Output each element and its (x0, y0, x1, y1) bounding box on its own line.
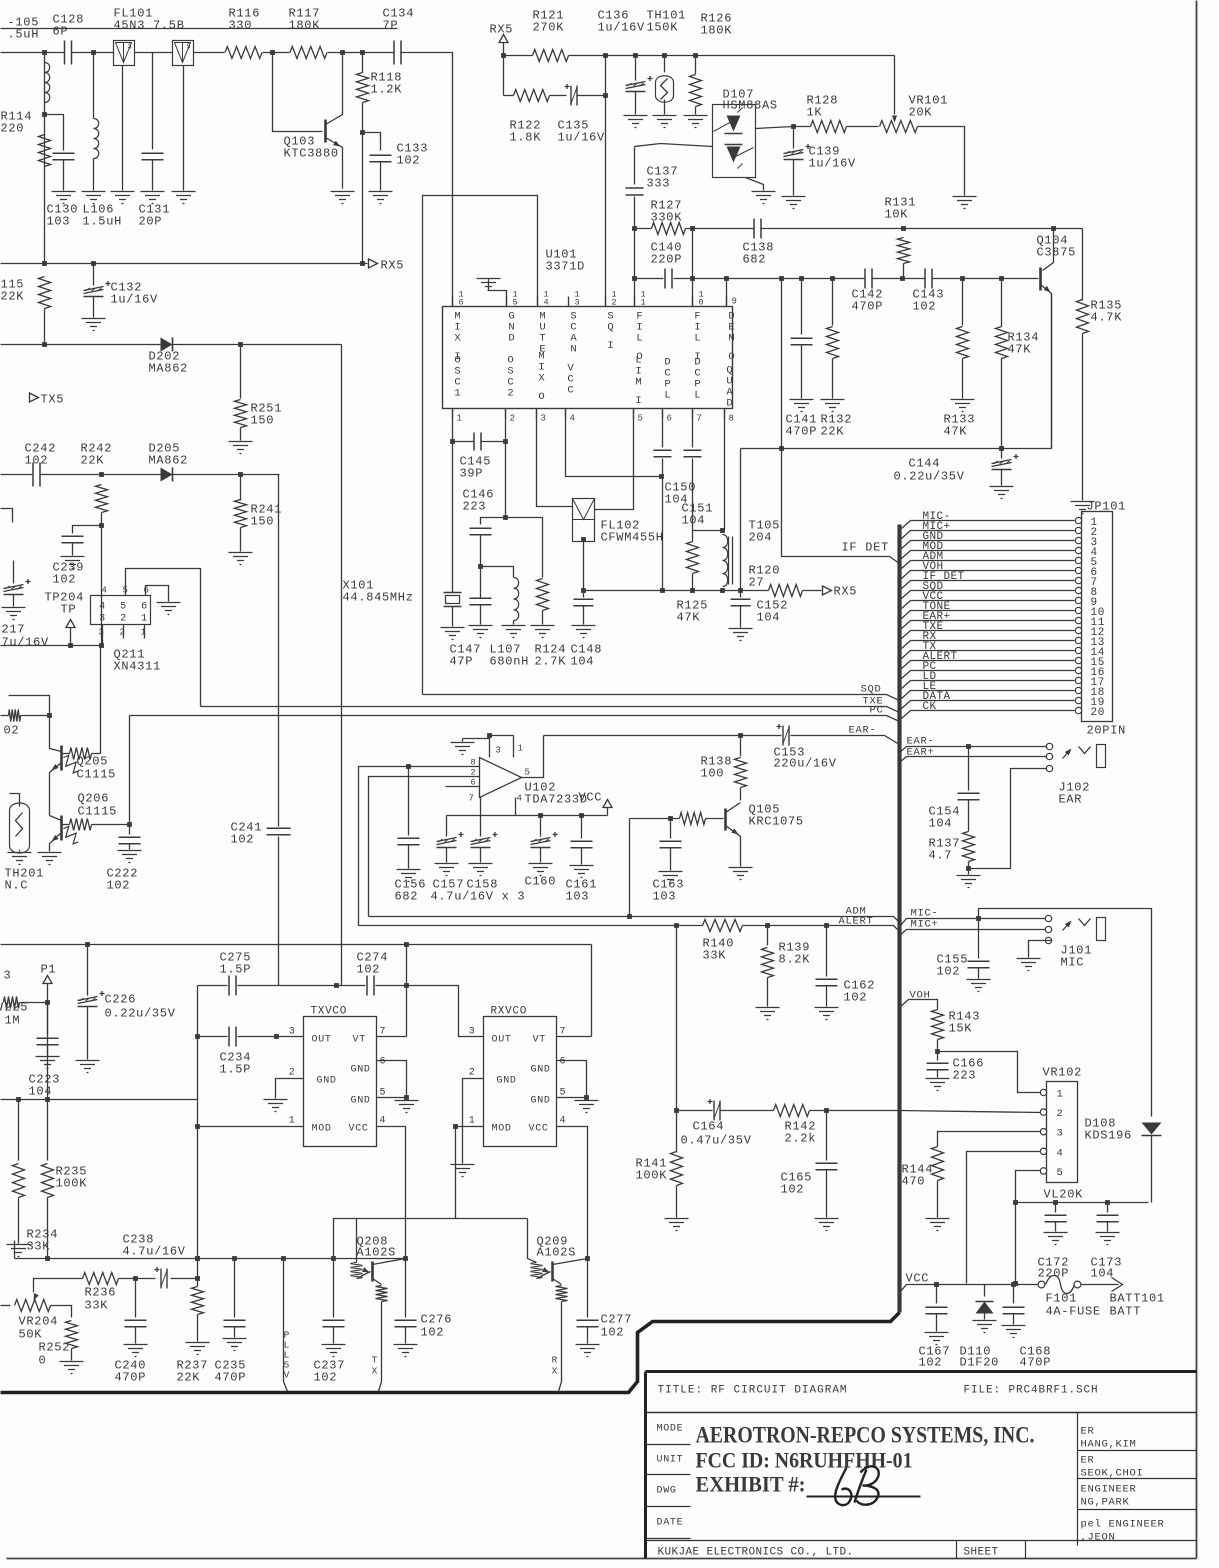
svg-text:270K: 270K (533, 21, 565, 35)
svg-text:A102S: A102S (537, 1246, 577, 1260)
wire JP101 pin 20 CK (902, 711, 1075, 719)
wire BATT arrow (1082, 1284, 1119, 1286)
svg-text:220u/16V: 220u/16V (774, 757, 837, 771)
svg-text:MOD: MOD (492, 1124, 512, 1135)
svg-text:102: 102 (397, 154, 421, 168)
wire pin3 mix out (537, 409, 573, 507)
svg-text:TXVCO: TXVCO (311, 1006, 348, 1018)
resistor R236 (51, 1278, 83, 1280)
resistor R143 (932, 1010, 944, 1040)
svg-text:15K: 15K (949, 1022, 973, 1036)
svg-text:6: 6 (143, 586, 149, 596)
ground C158 (469, 864, 493, 876)
ground R237 (186, 1343, 210, 1355)
svg-text:C226: C226 (105, 993, 137, 1007)
svg-text:1.5P: 1.5P (220, 963, 252, 977)
svg-text:MA862: MA862 (149, 362, 189, 376)
ground C152 (729, 629, 753, 641)
resistor R139 (765, 923, 770, 928)
ground C133 (369, 192, 393, 204)
wire U102 pin2 input (369, 777, 480, 917)
ground R137 (957, 876, 981, 888)
capacitor C217 electrolytic (13, 561, 15, 584)
svg-text:47P: 47P (450, 655, 474, 669)
capacitor C139 electrolytic (793, 127, 795, 149)
svg-text:GND: GND (351, 1065, 371, 1076)
svg-text:7: 7 (380, 1027, 387, 1038)
svg-text:VL20K: VL20K (1044, 1188, 1084, 1202)
ground TXVCO pin2 (264, 1100, 288, 1112)
IC U101 bottom pin stubs (452, 409, 454, 419)
thermistor TH101 (664, 56, 666, 73)
capacitor C154 (968, 747, 970, 791)
svg-text:VCC: VCC (906, 1272, 930, 1286)
wire main rail y590 (583, 590, 769, 592)
resistor R116 (225, 47, 262, 59)
svg-text:TX: TX (372, 1355, 378, 1377)
wire VCC net (900, 1285, 1039, 1293)
wire page border bottom (7, 1558, 1197, 1560)
svg-text:1u/16V: 1u/16V (111, 293, 159, 307)
svg-text:2: 2 (612, 298, 618, 308)
ground R234 (7, 1245, 31, 1257)
capacitor C165 (826, 1111, 828, 1161)
svg-text:682: 682 (395, 890, 419, 904)
ground C157 (435, 864, 459, 876)
capacitor C151 (684, 450, 702, 457)
resistor R137 (963, 832, 975, 862)
transistor array Q211 box (91, 596, 151, 625)
resistor R124 (506, 518, 543, 578)
transistor Q205 (60, 746, 63, 771)
svg-text:2: 2 (471, 768, 477, 778)
svg-text:FILE: PRC4BRF1.SCH: FILE: PRC4BRF1.SCH (964, 1385, 1099, 1397)
ground C147 (469, 626, 493, 638)
svg-text:SHEET: SHEET (964, 1547, 999, 1559)
opamp U102 triangle (480, 758, 522, 798)
capacitor C153 electrolytic (783, 726, 789, 746)
wire mute net (423, 196, 538, 695)
capacitor C173 (1107, 1203, 1109, 1213)
node RX5 arrow (369, 259, 378, 268)
thermistor TH201 (10, 794, 20, 801)
ground RXVCO pin5 (575, 1101, 599, 1113)
svg-text:TX5: TX5 (41, 393, 65, 407)
node RX5 right arrow (823, 586, 832, 595)
svg-text:47K: 47K (1008, 343, 1032, 357)
ground C144 (990, 487, 1014, 499)
title block bottom row (646, 1541, 1197, 1559)
svg-text:VCC: VCC (529, 1124, 549, 1135)
svg-text:3: 3 (99, 614, 106, 625)
ground R132 (821, 400, 845, 412)
svg-text:6P: 6P (53, 25, 69, 39)
wire RXVCO pin6 pin5 (557, 1061, 587, 1098)
svg-text:3: 3 (469, 1027, 476, 1038)
wire RXVCO out feed (407, 986, 484, 1037)
capacitor C144 electrolytic (1001, 449, 1003, 459)
resistor R252 (66, 1321, 78, 1349)
svg-text:220P: 220P (651, 253, 683, 267)
wire TXVCO pin4 vcc (377, 1127, 406, 1259)
filter FL102 (573, 499, 595, 542)
wire EAR- net (544, 735, 782, 737)
IC U101 top pin stubs (452, 297, 454, 307)
svg-text:470P: 470P (852, 300, 884, 314)
ground C173 (1096, 1233, 1120, 1245)
resistor R134 (996, 327, 1008, 359)
svg-text:1: 1 (1057, 1089, 1064, 1101)
resistor R126 (695, 56, 697, 75)
resistor R128 (811, 121, 847, 133)
svg-text:39P: 39P (460, 467, 484, 481)
svg-text:4: 4 (517, 794, 523, 804)
capacitor C135 electrolytic (571, 86, 577, 106)
wire D107 to C137 (635, 144, 713, 147)
svg-text:100: 100 (701, 767, 725, 781)
resistor R117 (290, 47, 327, 59)
svg-text:22K: 22K (177, 1371, 201, 1385)
transistor Q103 (324, 120, 327, 143)
svg-text:20PIN: 20PIN (1087, 724, 1127, 738)
svg-text:150K: 150K (647, 21, 679, 35)
svg-text:1: 1 (141, 628, 147, 638)
wire JP101 pin 12 TXE (902, 631, 1075, 639)
svg-text:680nH: 680nH (490, 655, 530, 669)
ground Q105 (729, 868, 753, 880)
wire JP101 pin 4 MOD (902, 551, 1075, 559)
resistor R144 (932, 1147, 944, 1181)
svg-text:DCPL: DCPL (664, 357, 670, 402)
wire D205 row y474 (1, 474, 33, 476)
svg-text:3371D: 3371D (546, 260, 586, 274)
ground C130 (52, 192, 76, 204)
wire ALERT net (359, 925, 703, 927)
jack J101 (1045, 915, 1051, 921)
capacitor C136 electrolytic (635, 56, 637, 81)
svg-text:1.2K: 1.2K (371, 83, 403, 97)
ground C168 (1002, 1326, 1026, 1338)
wire TX5 (1, 28, 398, 30)
svg-text:D1F20: D1F20 (960, 1356, 1000, 1370)
wire ADM net (369, 917, 900, 923)
svg-text:33K: 33K (27, 1240, 51, 1254)
wire Q211 pin2 stub (123, 625, 125, 639)
svg-text:2.2k: 2.2k (785, 1132, 817, 1146)
title block left cells (646, 1445, 691, 1539)
capacitor C157 electrolytic (446, 816, 448, 837)
capacitor C152 (740, 591, 742, 598)
svg-text:223: 223 (953, 1069, 977, 1083)
ground X101 (441, 628, 465, 640)
ground C240 (124, 1345, 148, 1357)
capacitor C238 electrolytic (136, 1278, 156, 1280)
capacitor C172 (1055, 1203, 1057, 1213)
wire RXVCO pin1 mod (456, 1127, 484, 1219)
svg-text:20P: 20P (139, 215, 163, 229)
ground RXVCO pin2 (451, 1165, 475, 1177)
wire VR102 pin5 net (1016, 1171, 1041, 1284)
svg-text:1.8K: 1.8K (510, 131, 542, 145)
svg-text:P1: P1 (41, 963, 57, 977)
ground J101 (1017, 959, 1041, 971)
wire D107 ground leg (746, 178, 764, 191)
wire JP101 pin 7 IF DET (902, 581, 1075, 589)
svg-text:20K: 20K (909, 106, 933, 120)
svg-text:ALERT: ALERT (839, 916, 874, 928)
svg-text:C160: C160 (525, 875, 557, 889)
svg-text:5: 5 (1057, 1167, 1064, 1179)
diode D110 (984, 1285, 986, 1297)
ground C277 (576, 1345, 600, 1357)
svg-text:SCAN: SCAN (570, 311, 577, 356)
ground R144 (926, 1219, 950, 1231)
svg-text:1: 1 (641, 298, 647, 308)
wire VT drop x406 (406, 945, 408, 1037)
capacitor C274 (367, 976, 374, 996)
wire C172 rail y1202 (1016, 1202, 1149, 1204)
svg-text:F101: F101 (1046, 1292, 1078, 1306)
svg-text:104: 104 (571, 655, 595, 669)
wire y1099 rail (1, 1099, 198, 1101)
wire C130 tap (45, 115, 64, 151)
svg-text:MIC: MIC (1061, 956, 1085, 970)
svg-text:223: 223 (463, 500, 487, 514)
ground C156 (397, 870, 421, 882)
ground C172 (1044, 1233, 1068, 1245)
oscillator TXVCO box (304, 1017, 377, 1147)
title block right column (1078, 1413, 1197, 1546)
svg-text:GND: GND (531, 1065, 551, 1076)
svg-text:3: 3 (541, 414, 547, 424)
ground Q206 (38, 853, 62, 865)
svg-text:2.7K: 2.7K (535, 655, 567, 669)
svg-text:QUAD: QUAD (726, 365, 733, 410)
ground C226 (76, 1061, 100, 1073)
svg-text:BATT101: BATT101 (1110, 1292, 1165, 1306)
wire R114 branch (44, 53, 46, 264)
svg-text:0: 0 (699, 298, 705, 308)
diode D108 symbol (1142, 1123, 1162, 1135)
capacitor C241 (278, 837, 280, 986)
svg-text:VT: VT (353, 1035, 366, 1046)
wire C140 row segments (635, 278, 664, 280)
svg-text:50K: 50K (19, 1328, 43, 1342)
ground Q211 (157, 603, 181, 615)
wire C275 rail y985 (198, 985, 228, 987)
potentiometer VR204 (1, 1305, 11, 1307)
wire R143 to VR102 pin1 (938, 1052, 1041, 1093)
wire PLL5V (284, 1259, 288, 1392)
wire RXVCO pin4 vcc (557, 1127, 588, 1259)
svg-text:OSC1: OSC1 (454, 355, 460, 400)
ground C163 (659, 872, 683, 884)
svg-text:Q205: Q205 (77, 755, 109, 769)
svg-text:1: 1 (518, 744, 524, 754)
ground R135 (1071, 502, 1095, 514)
capacitor C146 (470, 528, 492, 535)
diode D110 symbol (976, 1302, 994, 1314)
svg-text:KDS196: KDS196 (1085, 1129, 1132, 1143)
svg-text:33K: 33K (85, 1299, 109, 1313)
wire RXVCO pin7 VT (557, 1036, 592, 1038)
ground C155 (967, 980, 991, 992)
svg-text:2: 2 (469, 1068, 476, 1079)
svg-text:6: 6 (459, 298, 465, 308)
svg-text:103: 103 (566, 890, 590, 904)
capacitor C128 (65, 41, 72, 65)
svg-text:100K: 100K (636, 1169, 668, 1183)
svg-text:3: 3 (128, 44, 133, 52)
svg-text:NG,PARK: NG,PARK (1081, 1497, 1130, 1509)
inductor L106 (93, 53, 95, 119)
svg-text:CFWM455H: CFWM455H (601, 531, 664, 545)
capacitor C242 (33, 463, 40, 487)
svg-text:EAR-: EAR- (849, 725, 877, 737)
bus bar vertical (897, 525, 901, 1313)
wire PC net (130, 716, 900, 722)
svg-text:RX5: RX5 (381, 259, 405, 273)
svg-text:BATT: BATT (1110, 1305, 1142, 1319)
svg-text:VR204: VR204 (19, 1315, 59, 1329)
wire VR102 pin3 net (938, 1132, 1041, 1147)
potentiometer VR102 box (1047, 1082, 1078, 1183)
ground C165 (815, 1219, 839, 1231)
capacitor C148 (583, 542, 585, 598)
ground D110 (973, 1321, 997, 1333)
svg-text:C144: C144 (909, 457, 941, 471)
svg-text:470P: 470P (786, 425, 818, 439)
svg-text:5: 5 (638, 414, 644, 424)
wire R127 rail y228 (632, 226, 637, 231)
capacitor C239 (73, 526, 102, 534)
svg-text:DWG: DWG (657, 1486, 677, 1497)
svg-text:102: 102 (357, 963, 381, 977)
svg-text:44.845MHz: 44.845MHz (343, 591, 414, 605)
capacitor C138 (754, 219, 761, 239)
resistor R135 (1054, 228, 1083, 230)
svg-text:VOH: VOH (910, 990, 931, 1002)
title block exhibit underline (807, 1496, 921, 1498)
wire EAR- right (900, 747, 1047, 753)
svg-text:OUT: OUT (312, 1035, 332, 1046)
svg-text:100K: 100K (56, 1177, 88, 1191)
svg-text:1u/16V: 1u/16V (809, 157, 857, 171)
capacitor C156 (408, 767, 410, 836)
svg-text:6: 6 (560, 1057, 567, 1068)
svg-text:102: 102 (107, 879, 131, 893)
wire pin11 drop (634, 279, 636, 307)
svg-text:5: 5 (525, 768, 531, 778)
svg-text:2: 2 (510, 414, 516, 424)
svg-text:3: 3 (99, 628, 105, 638)
resistor R140 (703, 920, 743, 932)
wire JP101 pin 13 RX (902, 641, 1075, 649)
svg-text:ENGINEER: ENGINEER (1081, 1484, 1137, 1496)
svg-text:102: 102 (314, 1371, 338, 1385)
capacitor C226 electrolytic (87, 945, 89, 996)
wire JP101 pin 11 EAR+ (902, 621, 1075, 629)
svg-text:102: 102 (937, 965, 961, 979)
svg-text:VCC: VCC (579, 791, 603, 805)
svg-text:22K: 22K (81, 454, 105, 468)
svg-text:6: 6 (141, 602, 148, 613)
transistor Q209 (528, 1219, 537, 1263)
svg-text:VT: VT (533, 1035, 546, 1046)
capacitor C168 (1011, 1282, 1016, 1287)
ground R124 (531, 626, 555, 638)
wire FL101a ground (122, 66, 124, 191)
resistor R251 (240, 345, 242, 399)
test point TP204 (70, 628, 72, 646)
svg-text:102: 102 (601, 1326, 625, 1340)
svg-text:4.7u/16V x 3: 4.7u/16V x 3 (431, 890, 526, 904)
ground FL101b (172, 192, 196, 204)
svg-text:102: 102 (53, 573, 77, 587)
ground R251 (229, 442, 253, 454)
svg-text:UNIT: UNIT (657, 1455, 684, 1466)
ground TH101 (653, 116, 677, 128)
resistor R118 (362, 53, 364, 73)
jack J102 (1046, 743, 1052, 749)
svg-text:27: 27 (749, 576, 765, 590)
resistor R242 (96, 485, 108, 513)
svg-text:KUKJAE ELECTRONICS CO., LTD.: KUKJAE ELECTRONICS CO., LTD. (658, 1547, 854, 1559)
potentiometer VR101 (880, 121, 918, 133)
wire pin1 osc1 (452, 409, 454, 593)
svg-text:8.2K: 8.2K (779, 953, 811, 967)
resistor R120 (769, 585, 803, 597)
svg-text:9: 9 (732, 297, 738, 307)
IC U101 box (443, 307, 733, 409)
transistor Q206 emitter (50, 833, 62, 852)
ground R241 (229, 553, 253, 565)
resistor R132 (832, 279, 834, 326)
svg-text:FCC ID: N6RUHFHH-01: FCC ID: N6RUHFHH-01 (696, 1448, 913, 1473)
svg-text:330: 330 (229, 19, 253, 33)
capacitor C158 electrolytic (480, 816, 482, 837)
svg-text:OSC2: OSC2 (507, 355, 513, 400)
capacitor C145 (474, 433, 481, 451)
capacitor C162 (824, 923, 829, 928)
capacitor C132 electrolytic (93, 264, 95, 286)
svg-text:JP101: JP101 (1087, 500, 1127, 514)
svg-text:150: 150 (251, 414, 275, 428)
svg-text:225: 225 (5, 1001, 29, 1015)
ground C131 (141, 192, 165, 204)
svg-text:7: 7 (697, 414, 703, 424)
ground C148 (572, 626, 596, 638)
svg-text:C276: C276 (421, 1313, 453, 1327)
capacitor C167 (936, 1285, 938, 1304)
svg-text:7u/16V: 7u/16V (2, 636, 50, 650)
svg-text:47K: 47K (944, 425, 968, 439)
svg-text:Q206: Q206 (78, 792, 110, 806)
svg-text:180K: 180K (289, 19, 321, 33)
wire y695 stub (9, 696, 50, 716)
wire VCC bus y1258 (15, 1258, 406, 1260)
capacitor C142 (865, 269, 872, 289)
wire JP101 pin 5 ADM (902, 561, 1075, 569)
svg-text:682: 682 (743, 253, 767, 267)
capacitor C277 (587, 1259, 589, 1318)
svg-text:22K: 22K (821, 425, 845, 439)
resistor R122 (514, 90, 550, 102)
wire JP101 pin 6 VOH (902, 571, 1075, 579)
resistor R131 (898, 238, 910, 264)
svg-text:3: 3 (1057, 1128, 1064, 1140)
wire pin8 quad (724, 409, 726, 531)
